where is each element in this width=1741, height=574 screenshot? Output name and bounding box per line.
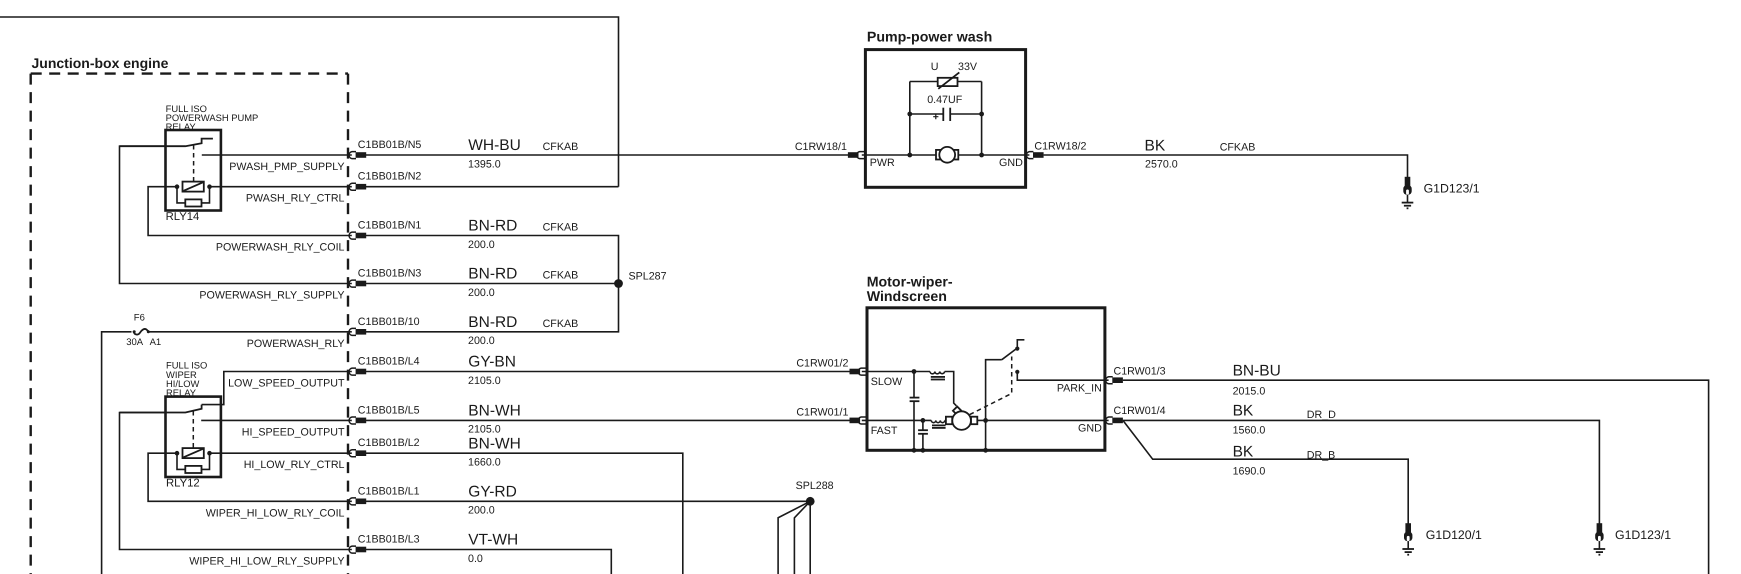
pin label C1RW18/1 (795, 141, 847, 153)
wire BK DR_B to ground G1D120/1 (1123, 420, 1408, 523)
wire name BK (1233, 403, 1254, 420)
wire park switch riser (986, 360, 1002, 421)
harness CFKAB (1220, 142, 1256, 154)
connector pin C1BB01B/L2 (349, 450, 366, 457)
svg-text:C1BB01B/N2: C1BB01B/N2 (358, 171, 422, 183)
pin label C1RW01/4 (1114, 405, 1166, 417)
ground label G1D120/1 (1426, 528, 1482, 542)
pin label C1RW01/3 (1114, 366, 1166, 378)
connector pin C1BB01B/N1 (349, 232, 366, 239)
wiper motor M2 (946, 407, 977, 430)
ground G1D123/1 right eyelet and earth (1594, 523, 1606, 555)
wire BN-WH to wiper motor FAST (366, 419, 850, 421)
pump title (867, 29, 992, 45)
wire length 1690.0 (1233, 466, 1266, 478)
svg-text:1395.0: 1395.0 (468, 158, 501, 170)
wire name WH-BU (468, 137, 521, 154)
wire length 200.0 (468, 505, 495, 517)
svg-text:C1BB01B/10: C1BB01B/10 (358, 316, 420, 328)
svg-text:SLOW: SLOW (871, 376, 903, 388)
fuse F6 (133, 329, 150, 335)
svg-text:0.47UF: 0.47UF (927, 94, 963, 106)
svg-text:POWERWASH_RLY_COIL: POWERWASH_RLY_COIL (216, 242, 345, 254)
wire name BN-RD (468, 314, 517, 331)
svg-text:DR_B: DR_B (1307, 450, 1336, 462)
svg-text:PWR: PWR (870, 157, 895, 169)
wire length 200.0 (468, 335, 495, 347)
svg-text:GND: GND (999, 157, 1023, 169)
svg-text:CFKAB: CFKAB (543, 141, 579, 153)
svg-text:GY-BN: GY-BN (468, 354, 516, 371)
pin label C1BB01B/L5 (358, 404, 420, 416)
wire VT-WH L3 tail off sheet (366, 550, 611, 574)
wire length 2105.0 (468, 424, 501, 436)
wire BK DR_D to ground G1D123/1 (1123, 420, 1600, 523)
svg-text:C1BB01B/L2: C1BB01B/L2 (358, 437, 420, 449)
inductor fast winding (931, 420, 945, 428)
svg-text:2105.0: 2105.0 (468, 375, 501, 387)
svg-text:C1BB01B/N1: C1BB01B/N1 (358, 220, 422, 232)
svg-text:G1D123/1: G1D123/1 (1615, 528, 1671, 542)
svg-text:200.0: 200.0 (468, 287, 495, 299)
net label HI_SPEED_OUTPUT (242, 426, 345, 438)
svg-text:200.0: 200.0 (468, 239, 495, 251)
pin label C1BB01B/N5 (358, 139, 422, 151)
svg-text:C1RW01/3: C1RW01/3 (1114, 366, 1166, 378)
connector pin C1BB01B/N3 (349, 280, 366, 287)
svg-text:SPL287: SPL287 (629, 271, 667, 283)
wire name BK (1145, 138, 1166, 155)
svg-text:BN-WH: BN-WH (468, 403, 521, 420)
varistor label U (931, 61, 939, 73)
wire N2 net: RLY14 coil right to pin (210, 186, 352, 188)
wire L2 net: RLY12 coil right to pin (210, 452, 352, 454)
park switch upper contact (1015, 340, 1024, 351)
connector pin C1BB01B/N5 (349, 152, 366, 159)
svg-text:C1BB01B/L3: C1BB01B/L3 (358, 534, 420, 546)
net label POWERWASH_RLY_COIL (216, 242, 345, 254)
wire name BN-RD (468, 218, 517, 235)
relay RLY12 coil junction dots (175, 451, 212, 456)
svg-text:C1RW18/2: C1RW18/2 (1034, 141, 1086, 153)
wire name BK (1233, 443, 1254, 460)
varistor U 33V (938, 72, 960, 88)
pin label C1BB01B/N3 (358, 268, 422, 280)
relay RLY14 coil junction dots (175, 184, 212, 189)
junction dots pump (907, 112, 984, 158)
relay RLY14 label block (166, 103, 259, 132)
relay RLY12 designator (166, 477, 200, 489)
relay RLY14 actuator dashed (193, 145, 195, 181)
svg-text:POWERWASH_RLY: POWERWASH_RLY (247, 338, 345, 350)
svg-text:WH-BU: WH-BU (468, 137, 521, 154)
wire length 2105.0 (468, 375, 501, 387)
svg-text:PWASH_PMP_SUPPLY: PWASH_PMP_SUPPLY (229, 161, 344, 173)
svg-text:200.0: 200.0 (468, 335, 495, 347)
svg-text:LOW_SPEED_OUTPUT: LOW_SPEED_OUTPUT (228, 378, 345, 390)
svg-text:C1BB01B/N5: C1BB01B/N5 (358, 139, 422, 151)
connector pin C1RW01/3 (1106, 377, 1123, 384)
capacitor label 0.47UF (927, 94, 963, 106)
wire BN-RD N1 to splice riser (366, 236, 619, 284)
wire L3 net: blade rail of RLY12 (120, 413, 352, 550)
junction box title (32, 55, 169, 71)
svg-text:PWASH_RLY_CTRL: PWASH_RLY_CTRL (246, 193, 345, 205)
wire length 200.0 (468, 239, 495, 251)
net label HI_LOW_RLY_CTRL (244, 459, 345, 471)
wire N5 net: relay RLY14 contact to pin (202, 154, 352, 156)
harness CFKAB (543, 222, 579, 234)
pin name FAST (871, 425, 898, 437)
svg-text:C1RW01/4: C1RW01/4 (1114, 405, 1166, 417)
pin label C1BB01B/L4 (358, 356, 420, 368)
pump motor M1 (936, 147, 958, 163)
connector pin C1RW01/1 (850, 417, 867, 424)
wire name BN-RD (468, 266, 517, 283)
wire L4 net: RLY12 top contact to pin (202, 372, 352, 405)
capacitor polarity plus (933, 114, 938, 119)
pump body box (865, 50, 1025, 188)
svg-text:33V: 33V (958, 61, 978, 73)
connector pin C1RW01/4 (1106, 417, 1123, 424)
wire BN-RD 10 to splice riser (366, 284, 619, 332)
svg-text:C1RW01/2: C1RW01/2 (796, 358, 848, 370)
fuse pin A1 (150, 337, 162, 348)
relay RLY12 suppression resistor loop (177, 453, 210, 473)
svg-text:FAST: FAST (871, 425, 898, 437)
relay RLY14 switch blade (120, 139, 213, 147)
svg-text:0.0: 0.0 (468, 553, 483, 565)
svg-text:C1RW18/1: C1RW18/1 (795, 141, 847, 153)
svg-text:BN-RD: BN-RD (468, 314, 517, 331)
svg-text:CFKAB: CFKAB (543, 270, 579, 282)
svg-text:1560.0: 1560.0 (1233, 425, 1266, 437)
svg-text:2015.0: 2015.0 (1233, 385, 1266, 397)
wiper motor title (867, 275, 953, 305)
net label WIPER_HI_LOW_RLY_COIL (206, 507, 345, 519)
pin name GND (1078, 423, 1102, 435)
svg-text:WIPER_HI_LOW_RLY_SUPPLY: WIPER_HI_LOW_RLY_SUPPLY (189, 556, 344, 568)
wire GY-BN to wiper motor SLOW (366, 371, 850, 373)
relay RLY14 coil (183, 182, 204, 192)
wire varistor top loop (910, 81, 982, 83)
relay RLY12 switch blade (120, 405, 202, 413)
splice label SPL288 (796, 480, 834, 492)
relay RLY14 body (166, 130, 221, 211)
wire BN-RD N3 to splice (366, 283, 619, 285)
wire BN-WH L2 tail off sheet (366, 453, 683, 574)
svg-text:CFKAB: CFKAB (1220, 142, 1256, 154)
svg-text:BK: BK (1233, 443, 1254, 460)
connector pin C1BB01B/10 (349, 328, 366, 335)
wire length 1660.0 (468, 457, 501, 469)
fuse rating 30A (126, 337, 144, 348)
svg-text:Junction-box engine: Junction-box engine (32, 55, 169, 71)
park switch lower contact to PARK_IN (1015, 370, 1108, 380)
pin name GND (999, 157, 1023, 169)
connector pin C1BB01B/L3 (349, 546, 366, 553)
net label WIPER_HI_LOW_RLY_SUPPLY (189, 556, 344, 568)
connector pin C1RW18/2 (1026, 152, 1043, 159)
net label LOW_SPEED_OUTPUT (228, 378, 345, 390)
svg-text:Windscreen: Windscreen (867, 289, 947, 305)
svg-text:F6: F6 (134, 313, 145, 324)
wire L1 net: coil rail of RLY12 (148, 453, 352, 501)
wire length 1395.0 (468, 158, 501, 170)
splice SPL288 branch wires (778, 501, 810, 574)
junction box boundary (dashed) (31, 74, 348, 574)
harness CFKAB (543, 318, 579, 330)
pin label C1BB01B/L3 (358, 534, 420, 546)
wire length 2015.0 (1233, 385, 1266, 397)
svg-text:SPL288: SPL288 (796, 480, 834, 492)
wire length 0.0 (468, 553, 483, 565)
net label POWERWASH_RLY_SUPPLY (199, 290, 344, 302)
wire FAST internal (862, 419, 1109, 421)
relay RLY14 designator (166, 211, 200, 223)
wire name BN-WH (468, 403, 521, 420)
wire BK to ground G1D123/1 (1044, 155, 1408, 177)
svg-text:BK: BK (1145, 138, 1166, 155)
wire N3 net: blade rail of RLY14 (120, 146, 352, 283)
pin label C1BB01B/N2 (358, 171, 422, 183)
wire varistor capacitor right leg (981, 82, 983, 156)
svg-text:GY-RD: GY-RD (468, 484, 517, 501)
svg-text:Pump-power wash: Pump-power wash (867, 29, 992, 45)
wire POWERWASH_RLY with fuse rail (102, 332, 352, 574)
pin label C1RW01/1 (796, 407, 848, 419)
wire name BN-BU (1233, 362, 1281, 379)
harness CFKAB (543, 270, 579, 282)
splice SPL287 (614, 279, 623, 288)
pin label C1BB01B/L1 (358, 485, 420, 497)
svg-text:C1BB01B/L4: C1BB01B/L4 (358, 356, 420, 368)
svg-text:BN-WH: BN-WH (468, 435, 521, 452)
svg-text:U: U (931, 61, 939, 73)
svg-text:C1RW01/1: C1RW01/1 (796, 407, 848, 419)
park switch actuator dashed link (970, 357, 1012, 415)
svg-text:2570.0: 2570.0 (1145, 158, 1178, 170)
svg-text:DR_D: DR_D (1307, 409, 1336, 421)
svg-text:POWERWASH_RLY_SUPPLY: POWERWASH_RLY_SUPPLY (199, 290, 344, 302)
svg-text:G1D120/1: G1D120/1 (1426, 528, 1482, 542)
svg-text:RLY14: RLY14 (166, 211, 200, 223)
wire motor to case (985, 420, 987, 450)
net label PWASH_RLY_CTRL (246, 193, 345, 205)
pin label C1BB01B/L2 (358, 437, 420, 449)
wire name GY-RD (468, 484, 517, 501)
park switch blade (1002, 349, 1017, 360)
wire N2 net to top sheet edge (0, 17, 619, 187)
wire option DR_D (1307, 409, 1336, 421)
pin name SLOW (871, 376, 903, 388)
wire WH-BU to pump (366, 154, 848, 156)
pin name PARK_IN (1057, 383, 1102, 395)
svg-text:CFKAB: CFKAB (543, 222, 579, 234)
svg-text:C1BB01B/L1: C1BB01B/L1 (358, 485, 420, 497)
varistor label 33V (958, 61, 978, 73)
svg-text:30A: 30A (126, 337, 144, 348)
svg-text:G1D123/1: G1D123/1 (1424, 181, 1480, 195)
wire N2 to riser (366, 186, 619, 188)
relay RLY12 actuator dashed (192, 411, 194, 448)
svg-text:A1: A1 (150, 337, 162, 348)
svg-text:VT-WH: VT-WH (468, 532, 518, 549)
wiper motor body box (867, 308, 1105, 451)
svg-text:RLY12: RLY12 (166, 477, 200, 489)
wire name BN-WH (468, 435, 521, 452)
capacitor 0.47UF plates (943, 108, 950, 121)
svg-text:HI_SPEED_OUTPUT: HI_SPEED_OUTPUT (242, 426, 345, 438)
wire pump internal bus (862, 154, 1030, 156)
svg-text:CFKAB: CFKAB (543, 318, 579, 330)
svg-text:HI_LOW_RLY_CTRL: HI_LOW_RLY_CTRL (244, 459, 345, 471)
wire name VT-WH (468, 532, 518, 549)
inductor slow winding (930, 372, 945, 380)
svg-text:GND: GND (1078, 423, 1102, 435)
svg-text:C1BB01B/L5: C1BB01B/L5 (358, 404, 420, 416)
pin label C1RW01/2 (796, 358, 848, 370)
splice SPL288 (806, 497, 815, 506)
relay RLY12 body (166, 397, 221, 477)
wire SLOW internal (862, 372, 957, 406)
svg-text:PARK_IN: PARK_IN (1057, 383, 1102, 395)
wire length 2570.0 (1145, 158, 1178, 170)
svg-text:BN-RD: BN-RD (468, 266, 517, 283)
svg-text:WIPER_HI_LOW_RLY_COIL: WIPER_HI_LOW_RLY_COIL (206, 507, 345, 519)
svg-text:1690.0: 1690.0 (1233, 466, 1266, 478)
svg-text:BN-BU: BN-BU (1233, 362, 1281, 379)
connector pin C1BB01B/L4 (349, 368, 366, 375)
net label POWERWASH_RLY (247, 338, 345, 350)
wire name GY-BN (468, 354, 516, 371)
wire option DR_B (1307, 450, 1336, 462)
wire length 1560.0 (1233, 425, 1266, 437)
connector pin C1BB01B/N2 (349, 183, 366, 190)
svg-text:1660.0: 1660.0 (468, 457, 501, 469)
pin name PWR (870, 157, 895, 169)
pin label C1RW18/2 (1034, 141, 1086, 153)
splice label SPL287 (629, 271, 667, 283)
wire BN-BU park signal off sheet (1123, 380, 1709, 574)
fuse F6 label (134, 313, 145, 324)
pin label C1BB01B/N1 (358, 220, 422, 232)
connector pin C1BB01B/L1 (349, 498, 366, 505)
wire L5 net: RLY12 lower contact to pin (201, 419, 352, 421)
capacitor slow to case (910, 372, 920, 451)
capacitor fast to case (918, 420, 928, 450)
relay RLY12 coil (183, 448, 204, 458)
ground label G1D123/1 (1615, 528, 1671, 542)
relay RLY14 suppression resistor loop (177, 187, 210, 207)
svg-text:BK: BK (1233, 403, 1254, 420)
svg-text:2105.0: 2105.0 (468, 424, 501, 436)
wire GY-RD to SPL288 (366, 500, 810, 502)
wire varistor capacitor left leg (909, 82, 911, 156)
connector pin C1BB01B/L5 (349, 417, 366, 424)
connector pin C1RW18/1 (848, 152, 865, 159)
connector pin C1RW01/2 (850, 368, 867, 375)
relay RLY12 label block (166, 360, 207, 398)
ground G1D123/1 eyelet and earth (1402, 177, 1414, 209)
junction dots wiper (912, 369, 988, 453)
svg-text:200.0: 200.0 (468, 505, 495, 517)
wire capacitor branch (910, 113, 982, 115)
svg-text:C1BB01B/N3: C1BB01B/N3 (358, 268, 422, 280)
pin label C1BB01B/10 (358, 316, 420, 328)
wire N1 net: coil rail of RLY14 (148, 187, 352, 236)
svg-text:BN-RD: BN-RD (468, 218, 517, 235)
net label PWASH_PMP_SUPPLY (229, 161, 344, 173)
ground label G1D123/1 (1424, 181, 1480, 195)
harness CFKAB (543, 141, 579, 153)
ground G1D120/1 eyelet and earth (1402, 523, 1414, 555)
wire length 200.0 (468, 287, 495, 299)
